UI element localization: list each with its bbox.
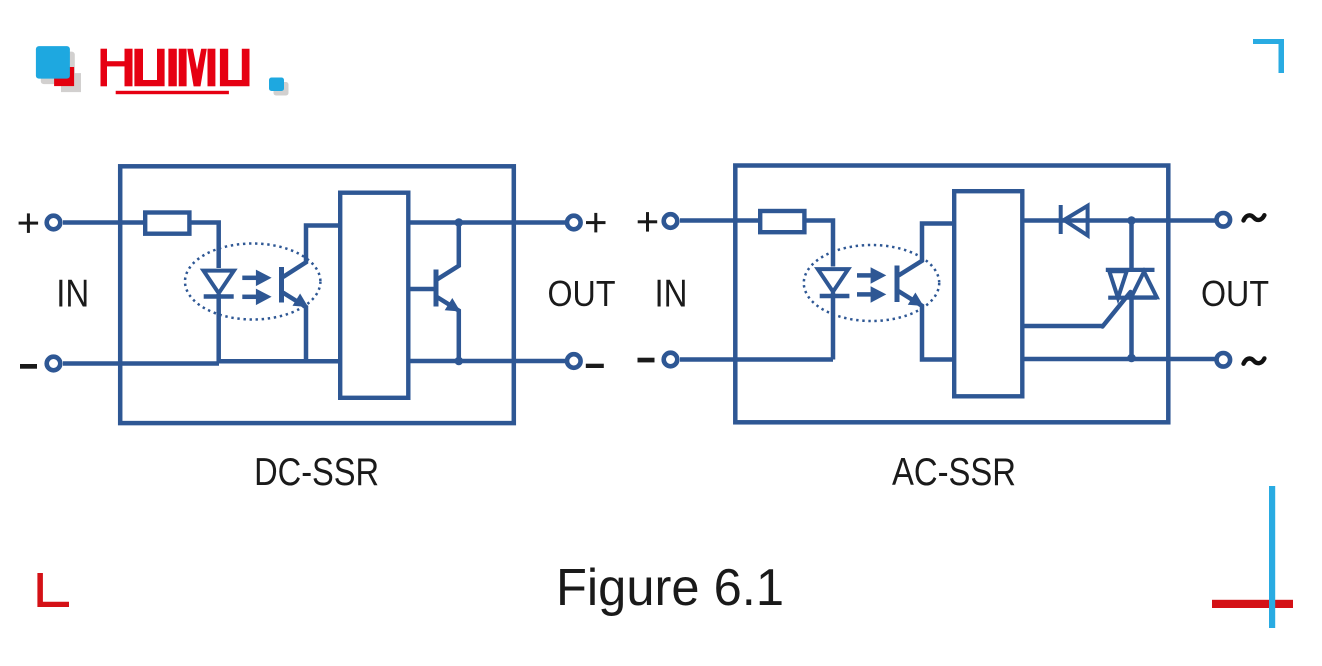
svg-text:Figure 6.1: Figure 6.1 bbox=[556, 559, 784, 617]
svg-text:OUT: OUT bbox=[548, 273, 616, 314]
svg-text:AC-SSR: AC-SSR bbox=[892, 451, 1016, 494]
svg-text:IN: IN bbox=[655, 273, 688, 316]
svg-text:IN: IN bbox=[56, 273, 89, 316]
svg-text:DC-SSR: DC-SSR bbox=[254, 451, 379, 494]
svg-text:OUT: OUT bbox=[1201, 273, 1269, 314]
